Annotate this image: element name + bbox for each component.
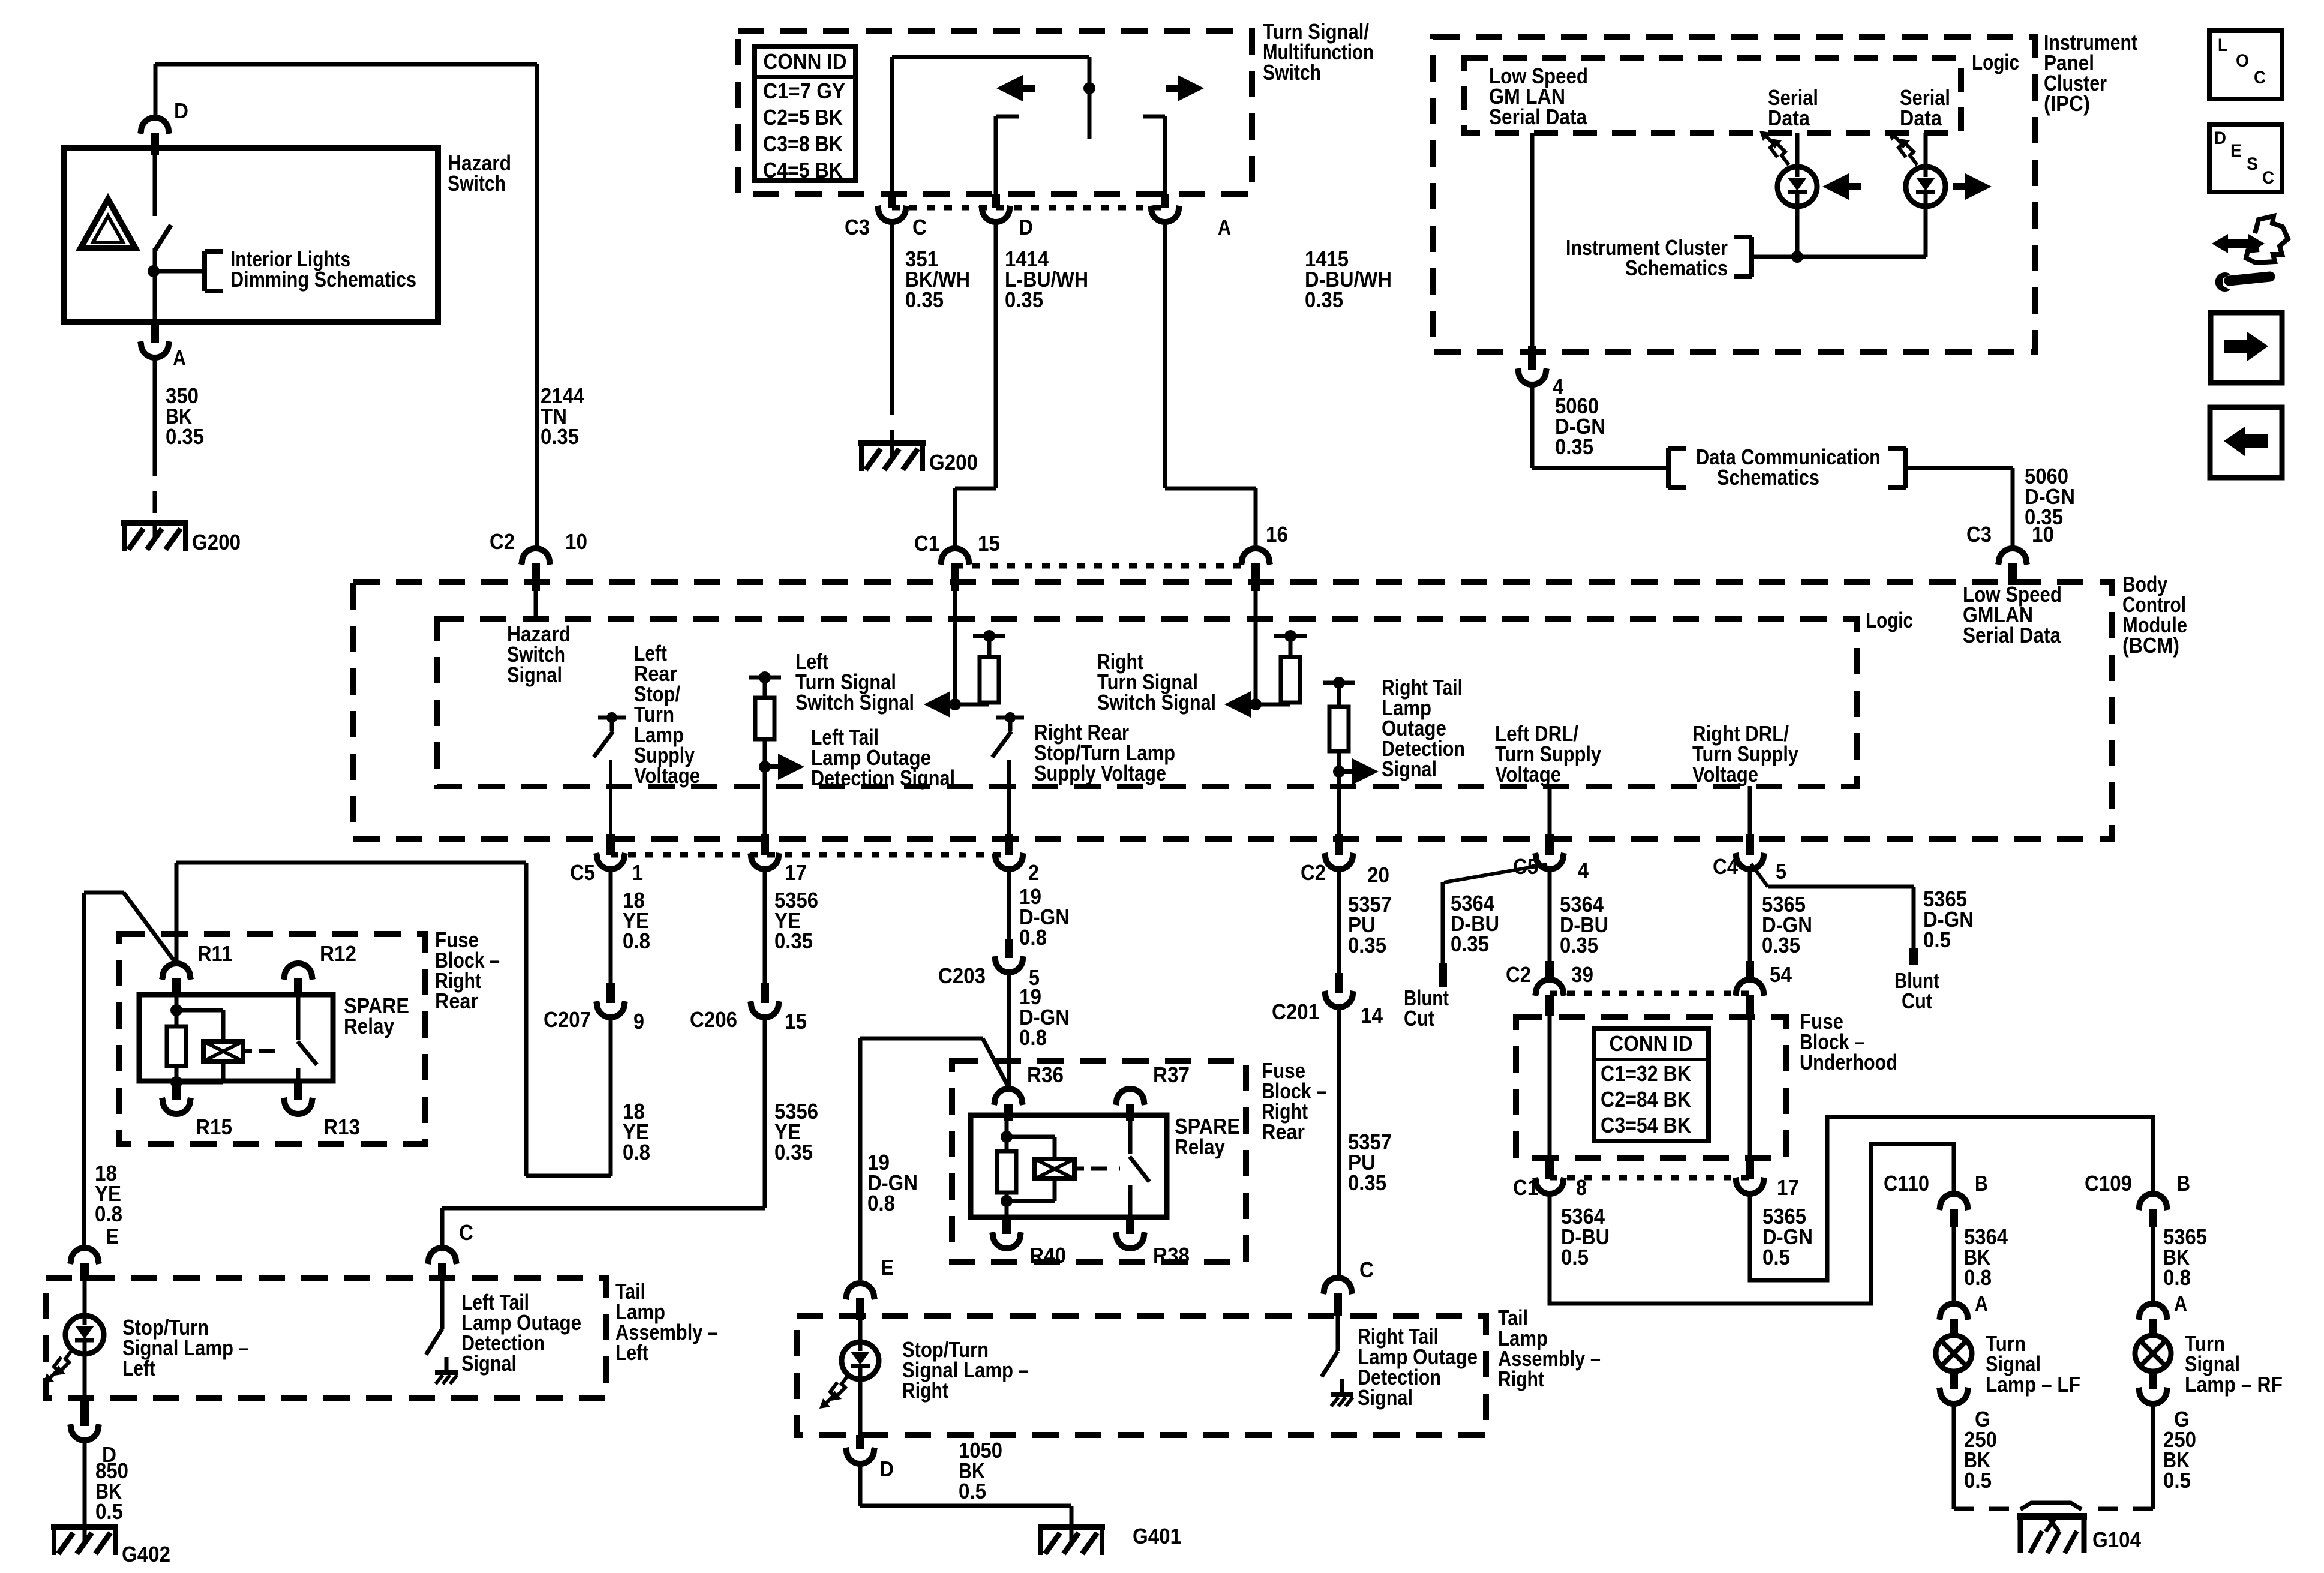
svg-text:C1: C1	[914, 531, 939, 556]
svg-text:0.8: 0.8	[1019, 1025, 1047, 1050]
svg-text:0.5: 0.5	[959, 1479, 986, 1503]
svg-text:1: 1	[632, 860, 643, 885]
svg-text:G401: G401	[1133, 1524, 1181, 1548]
svg-text:C109: C109	[2085, 1171, 2132, 1196]
svg-text:D: D	[879, 1457, 894, 1481]
svg-text:Relay: Relay	[1175, 1134, 1225, 1159]
svg-text:Left: Left	[615, 1340, 648, 1365]
svg-text:0.35: 0.35	[1762, 933, 1800, 957]
svg-text:A: A	[1975, 1291, 1988, 1316]
svg-text:Data: Data	[1768, 106, 1810, 130]
svg-text:R37: R37	[1153, 1062, 1190, 1087]
svg-text:0.35: 0.35	[1451, 932, 1489, 956]
svg-text:2: 2	[1028, 860, 1039, 885]
svg-text:R40: R40	[1029, 1243, 1066, 1268]
svg-text:G200: G200	[929, 450, 978, 475]
svg-text:E: E	[881, 1255, 894, 1280]
svg-text:C203: C203	[938, 963, 986, 988]
svg-text:14: 14	[1361, 1003, 1383, 1028]
svg-text:10: 10	[2032, 522, 2054, 547]
svg-text:39: 39	[1571, 962, 1593, 987]
svg-text:C4: C4	[1713, 854, 1738, 879]
svg-text:C2=5 BK: C2=5 BK	[763, 105, 843, 130]
svg-text:0.8: 0.8	[95, 1202, 122, 1226]
svg-text:C207: C207	[544, 1007, 591, 1032]
svg-text:5: 5	[1776, 859, 1786, 884]
svg-text:Schematics: Schematics	[1717, 465, 1819, 490]
svg-text:Voltage: Voltage	[634, 763, 700, 788]
svg-text:(IPC): (IPC)	[2044, 91, 2090, 116]
svg-text:Signal: Signal	[1382, 757, 1437, 781]
svg-text:A: A	[1218, 215, 1231, 239]
svg-text:D: D	[1019, 215, 1033, 239]
svg-text:Lamp – RF: Lamp – RF	[2185, 1372, 2283, 1397]
svg-text:Rear: Rear	[1262, 1119, 1305, 1144]
svg-text:0.5: 0.5	[1762, 1245, 1790, 1269]
svg-text:Logic: Logic	[1972, 50, 2019, 74]
svg-text:G402: G402	[122, 1542, 170, 1566]
svg-text:CONN ID: CONN ID	[1610, 1031, 1693, 1056]
svg-text:C4=5 BK: C4=5 BK	[763, 158, 843, 182]
svg-text:Schematics: Schematics	[1625, 256, 1728, 280]
svg-text:0.5: 0.5	[1561, 1245, 1589, 1269]
svg-text:C: C	[459, 1220, 473, 1245]
svg-text:0.35: 0.35	[1005, 287, 1043, 312]
svg-text:Voltage: Voltage	[1692, 762, 1758, 786]
svg-text:17: 17	[785, 860, 807, 885]
svg-text:R15: R15	[196, 1115, 232, 1139]
svg-text:0.8: 0.8	[1019, 925, 1047, 950]
svg-text:Data: Data	[1900, 106, 1942, 130]
svg-text:8: 8	[1576, 1175, 1587, 1200]
svg-text:B: B	[1975, 1171, 1988, 1196]
svg-text:0.35: 0.35	[1348, 933, 1386, 957]
svg-text:C2=84 BK: C2=84 BK	[1601, 1087, 1691, 1112]
svg-text:O: O	[2236, 51, 2249, 71]
svg-text:C2: C2	[1506, 962, 1531, 987]
svg-text:C1=7 GY: C1=7 GY	[763, 79, 845, 103]
svg-text:Serial Data: Serial Data	[1963, 623, 2061, 647]
svg-text:0.35: 0.35	[1560, 933, 1598, 957]
svg-text:0.35: 0.35	[166, 424, 204, 449]
svg-text:C1=32 BK: C1=32 BK	[1601, 1061, 1691, 1086]
svg-text:C3=54 BK: C3=54 BK	[1601, 1113, 1691, 1137]
svg-text:Logic: Logic	[1866, 608, 1913, 632]
svg-text:Switch Signal: Switch Signal	[1097, 690, 1216, 715]
svg-text:54: 54	[1770, 962, 1792, 987]
svg-text:C1: C1	[1513, 1175, 1538, 1200]
svg-text:0.8: 0.8	[623, 1140, 650, 1164]
svg-text:Signal: Signal	[461, 1351, 517, 1376]
svg-text:4: 4	[1578, 858, 1589, 882]
svg-text:Left: Left	[122, 1356, 155, 1380]
svg-text:E: E	[2230, 141, 2242, 161]
svg-text:CONN ID: CONN ID	[764, 49, 847, 74]
svg-text:G200: G200	[192, 530, 241, 554]
svg-text:C: C	[2254, 68, 2266, 88]
svg-text:Switch: Switch	[448, 171, 506, 196]
svg-text:0.5: 0.5	[95, 1499, 123, 1524]
svg-text:0.35: 0.35	[774, 1140, 813, 1164]
svg-text:A: A	[2174, 1291, 2187, 1316]
svg-text:C3=8 BK: C3=8 BK	[763, 131, 843, 156]
svg-text:R13: R13	[323, 1115, 360, 1139]
svg-text:0.35: 0.35	[1555, 434, 1593, 459]
svg-text:Cut: Cut	[1404, 1006, 1434, 1031]
svg-text:Cut: Cut	[1902, 989, 1932, 1013]
svg-text:0.35: 0.35	[774, 929, 813, 953]
svg-text:C: C	[2262, 168, 2274, 188]
svg-text:A: A	[173, 346, 186, 370]
svg-text:Right: Right	[1498, 1367, 1544, 1391]
svg-text:L: L	[2218, 35, 2227, 55]
svg-text:0.35: 0.35	[905, 287, 944, 312]
svg-text:R12: R12	[320, 941, 356, 966]
svg-text:C: C	[912, 215, 927, 239]
svg-text:C3: C3	[845, 215, 870, 239]
svg-text:0.5: 0.5	[1923, 927, 1951, 952]
svg-text:S: S	[2247, 154, 2258, 174]
svg-text:(BCM): (BCM)	[2122, 633, 2179, 658]
svg-text:Rear: Rear	[435, 989, 478, 1013]
svg-text:R11: R11	[197, 941, 232, 966]
svg-text:0.5: 0.5	[2163, 1468, 2191, 1493]
svg-text:Underhood: Underhood	[1800, 1050, 1897, 1074]
svg-text:C5: C5	[570, 860, 595, 885]
svg-text:G104: G104	[2092, 1527, 2141, 1552]
svg-text:20: 20	[1367, 863, 1389, 887]
svg-text:C2: C2	[1301, 860, 1326, 885]
svg-text:Voltage: Voltage	[1495, 762, 1561, 786]
svg-text:16: 16	[1266, 522, 1288, 547]
svg-text:0.8: 0.8	[867, 1191, 895, 1215]
svg-text:15: 15	[785, 1009, 807, 1034]
svg-text:Supply Voltage: Supply Voltage	[1034, 761, 1166, 785]
svg-text:C201: C201	[1272, 999, 1319, 1024]
svg-text:Signal: Signal	[507, 662, 562, 687]
svg-text:10: 10	[565, 529, 587, 554]
svg-text:Switch Signal: Switch Signal	[795, 690, 914, 715]
svg-text:Relay: Relay	[344, 1014, 394, 1038]
svg-text:Serial Data: Serial Data	[1489, 104, 1587, 129]
svg-text:C2: C2	[490, 529, 515, 554]
svg-text:0.8: 0.8	[2163, 1265, 2191, 1290]
svg-text:0.35: 0.35	[541, 424, 579, 449]
svg-text:0.35: 0.35	[1348, 1170, 1386, 1195]
svg-text:15: 15	[978, 531, 1000, 556]
svg-text:Switch: Switch	[1263, 60, 1321, 85]
svg-text:R36: R36	[1027, 1062, 1064, 1087]
svg-text:B: B	[2177, 1171, 2190, 1196]
svg-text:R38: R38	[1153, 1243, 1190, 1268]
svg-text:17: 17	[1777, 1175, 1799, 1200]
svg-text:Dimming Schematics: Dimming Schematics	[230, 267, 416, 292]
svg-text:C: C	[1359, 1257, 1374, 1282]
svg-text:Right: Right	[902, 1378, 948, 1403]
svg-text:0.8: 0.8	[1964, 1265, 1992, 1290]
svg-text:Detection Signal: Detection Signal	[811, 766, 955, 790]
svg-text:D: D	[174, 98, 188, 123]
svg-text:9: 9	[633, 1009, 644, 1034]
svg-text:0.8: 0.8	[623, 929, 650, 953]
svg-text:Lamp – LF: Lamp – LF	[1986, 1372, 2080, 1397]
svg-text:0.5: 0.5	[1964, 1468, 1992, 1493]
svg-text:E: E	[106, 1224, 119, 1248]
svg-text:D: D	[2214, 128, 2226, 148]
svg-text:C3: C3	[1966, 522, 1992, 547]
svg-text:C110: C110	[1884, 1171, 1929, 1196]
svg-text:C206: C206	[690, 1007, 737, 1032]
svg-text:0.35: 0.35	[1305, 287, 1343, 312]
svg-text:Signal: Signal	[1358, 1385, 1413, 1410]
